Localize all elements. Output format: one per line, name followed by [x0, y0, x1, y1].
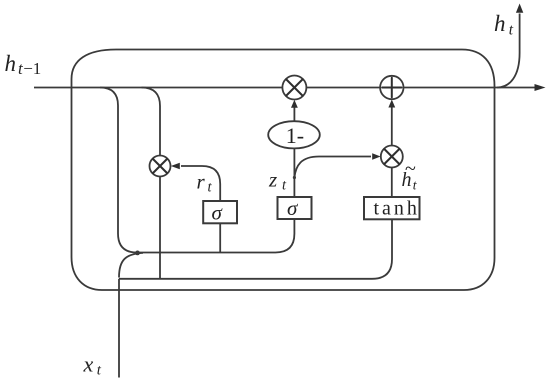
- X of reset multiply: [153, 159, 167, 173]
- + of add node: [382, 87, 401, 89]
- label h_t (output top right): [494, 11, 514, 39]
- add node circle: [380, 76, 403, 99]
- wire: 1- ellipse up to top multiply: [293, 104, 295, 121]
- svg-text:t: t: [208, 179, 213, 195]
- svg-text:1-: 1-: [286, 123, 304, 148]
- wire: z line from sigma box up to 1- ellipse: [293, 148, 295, 197]
- wire: h branch down to gate feed (left inner line): [100, 88, 294, 253]
- svg-text:x: x: [83, 352, 94, 377]
- svg-text:t: t: [413, 178, 418, 193]
- arrowhead: into top multiply from 1-: [291, 100, 298, 108]
- svg-text:σ: σ: [287, 196, 299, 220]
- svg-text:t: t: [282, 178, 287, 194]
- wire: z branch curving right to update multiply: [294, 157, 371, 178]
- arrowhead: h_t top: [516, 4, 523, 13]
- wire: h_t output curve up: [497, 14, 520, 88]
- svg-text:h: h: [5, 51, 17, 76]
- svg-text:r: r: [197, 169, 206, 193]
- wire: reset multiply output down: [159, 177, 161, 279]
- svg-text:tanh: tanh: [374, 198, 420, 220]
- arrowhead: into update multiply from z branch: [372, 153, 380, 160]
- wire: h branch down to reset multiply: [142, 88, 161, 156]
- GRU cell body (outer rounded rectangle): [72, 50, 495, 291]
- svg-text:t: t: [97, 363, 102, 379]
- sigma box (update gate): [278, 197, 312, 219]
- svg-text:t: t: [509, 22, 514, 39]
- tanh box: [364, 197, 420, 219]
- wire: update multiply up to plus: [391, 104, 393, 146]
- wire: x_t input vertical: [118, 279, 120, 378]
- 1- ellipse: [268, 121, 320, 148]
- arrowhead: into reset multiply from r_t: [171, 163, 180, 170]
- arrowhead: into add node from update multiply: [388, 100, 395, 108]
- label h~_t (candidate): [402, 158, 418, 193]
- svg-text:h: h: [402, 169, 412, 191]
- X of top multiply: [286, 80, 302, 96]
- wire: main h-line from h_{t-1} to output arrow: [34, 87, 535, 89]
- junction at gate feed merge: [135, 251, 140, 256]
- label z_t: [268, 168, 287, 194]
- svg-text:−1: −1: [23, 59, 41, 78]
- wire: tanh up to update multiply: [391, 168, 393, 198]
- multiply node (top, forget side) circle: [282, 76, 306, 100]
- wire: x_t curve up merging into gate feed line: [119, 253, 143, 278]
- label h_{t-1}: [5, 51, 42, 78]
- wire: T branch up into sigma r box: [219, 223, 221, 252]
- svg-text:σ: σ: [212, 201, 224, 225]
- wire: candidate feed line to tanh: [119, 219, 392, 278]
- svg-text:h: h: [494, 11, 506, 36]
- multiply node (update side) circle: [381, 146, 403, 168]
- svg-text:z: z: [268, 168, 277, 192]
- multiply node (reset gate) circle: [150, 156, 171, 177]
- X of update multiply: [384, 149, 399, 164]
- junction at z branch: [293, 176, 296, 179]
- arrowhead: main line right end: [535, 84, 546, 91]
- sigma box (reset gate): [203, 201, 237, 223]
- wire: r_t from sigma box up and left into reset multiply: [181, 166, 220, 201]
- label x_t (input bottom): [83, 352, 102, 379]
- label r_t: [197, 169, 213, 195]
